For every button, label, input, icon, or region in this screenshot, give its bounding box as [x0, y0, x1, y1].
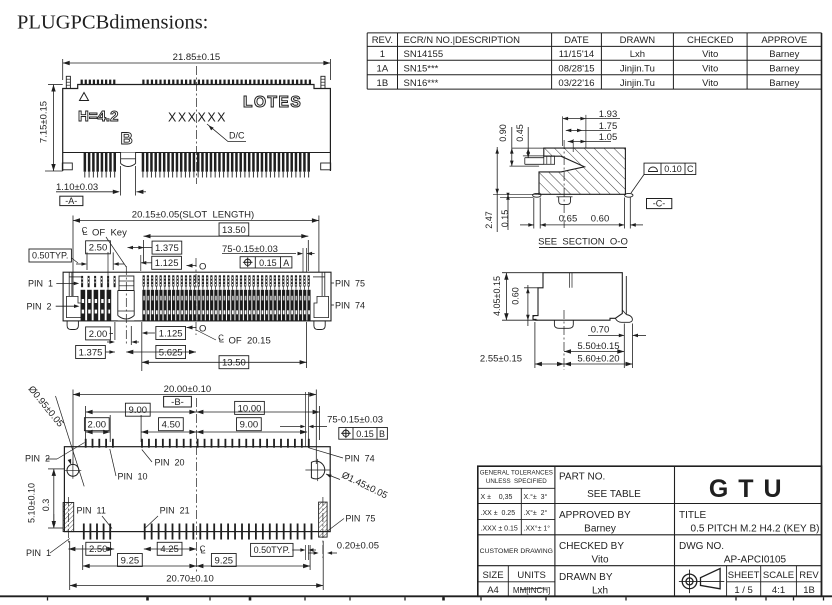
view1 body outline: [63, 85, 331, 172]
svg-text:20.00±0.10: 20.00±0.10: [164, 384, 211, 395]
view2 dim box 2.00 lower: [114, 322, 116, 340]
svg-text:O: O: [199, 262, 206, 273]
svg-text:LOTES: LOTES: [243, 94, 302, 111]
section dim 0.90: [511, 127, 513, 166]
svg-text:PIN 75: PIN 75: [335, 279, 365, 289]
svg-text:4.05±0.15: 4.05±0.15: [492, 276, 502, 316]
view1 bottom body edge: [63, 152, 331, 154]
bottom border line: [0, 595, 832, 597]
svg-text:MM[INCH]: MM[INCH]: [513, 586, 550, 595]
title block outer frame: [478, 466, 822, 596]
svg-text:0.45: 0.45: [515, 124, 525, 142]
svg-text:C: C: [82, 226, 88, 235]
view1 dim 7.15 extension lines: [48, 84, 63, 86]
view3 pin1 pad: [63, 503, 74, 532]
svg-text:PIN 74: PIN 74: [345, 454, 375, 464]
view1 left latch clip: [66, 76, 70, 88]
svg-text:1B: 1B: [377, 78, 389, 89]
svg-text:Barney: Barney: [769, 78, 799, 89]
svg-text:75-0.15±0.03: 75-0.15±0.03: [327, 415, 383, 426]
section right foot pad: [625, 193, 633, 197]
sideview dim 5.50±0.15: [564, 351, 624, 353]
section dim 1.05: [572, 139, 574, 152]
sheet scale rev cells: [726, 566, 728, 597]
svg-text:Jinjin.Tu: Jinjin.Tu: [620, 64, 655, 75]
svg-text:1B: 1B: [803, 585, 815, 596]
svg-text:0.15: 0.15: [500, 210, 510, 228]
svg-text:A: A: [283, 258, 289, 268]
section left foot pad: [533, 193, 541, 197]
sideview dim 4.05 extension lines: [502, 272, 543, 274]
svg-text:13.50: 13.50: [222, 358, 246, 369]
svg-text:UNLESS SPECIFIED: UNLESS SPECIFIED: [486, 478, 547, 485]
svg-text:0.90: 0.90: [498, 124, 508, 142]
title block main dividers: [554, 466, 556, 596]
svg-text:0.10: 0.10: [664, 164, 682, 174]
svg-text:1: 1: [380, 49, 385, 60]
svg-text:20.70±0.10: 20.70±0.10: [166, 574, 213, 585]
svg-text:O: O: [199, 324, 206, 335]
view2 left inner walls: [68, 272, 70, 296]
view3 dim 9.25 left: [82, 545, 84, 570]
svg-text:SIZE: SIZE: [482, 570, 503, 581]
sideview dim 5.60±0.20: [564, 363, 633, 365]
section pin centerline: [563, 140, 565, 228]
sideview dim 0.60: [524, 287, 538, 289]
sideview bottom pin bump: [554, 320, 573, 328]
svg-text:B: B: [121, 129, 133, 148]
svg-text:2.47: 2.47: [484, 211, 494, 229]
view1 index triangle mark: [80, 93, 89, 101]
svg-text:5.10±0.10: 5.10±0.10: [27, 483, 37, 523]
view3 dim 4.25 lower: [144, 548, 197, 550]
svg-text:9.25: 9.25: [121, 555, 140, 566]
view1 bottom pin strips right group: [142, 153, 145, 172]
view1 right mounting foot: [321, 163, 331, 170]
svg-text:Vito: Vito: [702, 78, 718, 89]
svg-text:Vito: Vito: [702, 64, 718, 75]
svg-text:PIN 21: PIN 21: [160, 506, 190, 516]
svg-text:11/15'14: 11/15'14: [559, 49, 594, 60]
view3 position tolerance frame B: [339, 428, 388, 440]
svg-text:DRAWN BY: DRAWN BY: [559, 572, 613, 583]
section dim 0.65 and 0.60: [520, 224, 534, 226]
view3 pin75 pad: [319, 502, 328, 537]
svg-text:G T U: G T U: [709, 475, 783, 503]
view2 contact tails group B: [143, 287, 145, 290]
view2 section marker O lower: [187, 327, 197, 329]
view2 top contact row group A: [81, 276, 83, 287]
svg-text:1.10±0.03: 1.10±0.03: [56, 182, 98, 193]
svg-text:OF Key: OF Key: [92, 228, 127, 239]
svg-text:PIN 2: PIN 2: [25, 454, 50, 464]
svg-text:0.15: 0.15: [259, 258, 277, 268]
svg-text:PIN 75: PIN 75: [345, 514, 375, 524]
view2 dim box 1.375 lower: [76, 346, 106, 359]
section datum C box: [647, 199, 672, 209]
svg-text:Vito: Vito: [702, 49, 718, 60]
svg-text:OF 20.15: OF 20.15: [229, 336, 271, 347]
svg-text:20.15±0.05(SLOT LENGTH): 20.15±0.05(SLOT LENGTH): [132, 210, 254, 221]
svg-text:X ± 0,35: X ± 0,35: [481, 494, 513, 501]
section left contact details: [525, 157, 544, 159]
svg-text:C: C: [687, 164, 694, 174]
svg-text:PIN 1: PIN 1: [26, 548, 51, 558]
view3 dim row 9.00 / 10.00: [85, 406, 87, 442]
view1 left mounting foot: [62, 163, 72, 170]
svg-text:DATE: DATE: [564, 35, 589, 46]
svg-text:1 / 5: 1 / 5: [734, 585, 753, 596]
svg-text:PART NO.: PART NO.: [559, 472, 605, 483]
svg-text:.XX°± 1°: .XX°± 1°: [524, 525, 551, 533]
svg-text:Lxh: Lxh: [592, 586, 608, 597]
svg-text:1.05: 1.05: [599, 132, 618, 143]
svg-text:9.25: 9.25: [215, 555, 234, 566]
view3 right hole 1.45: [311, 461, 324, 479]
svg-text:1.125: 1.125: [159, 328, 183, 339]
svg-text:0.60: 0.60: [511, 287, 521, 305]
svg-text:SEE TABLE: SEE TABLE: [587, 489, 641, 500]
svg-text:1.75: 1.75: [599, 121, 618, 132]
svg-text:4.25: 4.25: [160, 544, 179, 555]
svg-text:21.85±0.15: 21.85±0.15: [173, 52, 220, 63]
svg-text:08/28'15: 08/28'15: [558, 64, 594, 75]
view3 dim 9.25 right: [309, 545, 311, 570]
view2 left notch: [67, 296, 82, 317]
view2 body centerline: [195, 258, 197, 335]
bottom tick marks: [47, 597, 49, 600]
view1 top pin row group A: [81, 80, 83, 85]
view2 position tolerance frame: [240, 257, 292, 268]
svg-text:GENERAL TOLERANCES: GENERAL TOLERANCES: [480, 470, 553, 477]
sideview outer shell line: [625, 276, 627, 315]
svg-text:CHECKED: CHECKED: [687, 35, 734, 46]
view3 body centerline: [195, 398, 197, 572]
svg-text:2.00: 2.00: [88, 420, 107, 431]
view2 right inner walls: [321, 272, 323, 296]
view2 dim 20.15 line: [73, 220, 319, 222]
svg-text:9.00: 9.00: [129, 405, 148, 416]
view1 bottom pin strips left group: [84, 153, 87, 172]
svg-text:PIN 1: PIN 1: [28, 279, 53, 289]
section dim 1.93: [562, 116, 564, 146]
view3 dim 5.10±0.10: [53, 469, 55, 528]
svg-text:0.5 PITCH M.2 H4.2 (KEY B): 0.5 PITCH M.2 H4.2 (KEY B): [691, 524, 820, 535]
svg-text:10.00: 10.00: [238, 403, 262, 414]
view2 right foot: [314, 321, 325, 330]
view2 top contact row group B: [143, 275, 145, 286]
svg-text:Barney: Barney: [769, 64, 799, 75]
drawing frame right border: [821, 33, 823, 597]
view3 datum B box: [164, 396, 192, 407]
sideview dim 2.55±0.15: [534, 322, 536, 368]
svg-text:PIN 2: PIN 2: [27, 301, 52, 311]
svg-text:0.65: 0.65: [559, 214, 578, 225]
view3 bottom pad row group B: [144, 524, 146, 540]
svg-text:.XXX ± 0.15: .XXX ± 0.15: [481, 526, 518, 533]
svg-text:D/C: D/C: [229, 131, 245, 141]
svg-text:0.60: 0.60: [591, 214, 610, 225]
svg-text:C: C: [218, 334, 224, 343]
view3 bottom pad row group A: [83, 524, 85, 540]
svg-text:Lxh: Lxh: [630, 49, 645, 60]
section dim 2.47: [496, 147, 498, 232]
section profile tolerance frame: [644, 163, 696, 174]
view2 dim box 1.375 upper: [152, 241, 182, 254]
view3 left hole 0.95: [67, 464, 79, 476]
view3 dim 20.00±0.10: [73, 394, 316, 396]
view2 dim 20.15 extension lines: [72, 216, 74, 297]
svg-text:-B-: -B-: [171, 397, 184, 408]
svg-text:REV: REV: [799, 570, 819, 581]
svg-text:0.20±0.05: 0.20±0.05: [337, 541, 379, 552]
svg-text:SCALE: SCALE: [763, 570, 794, 581]
view2 aux vertical line: [107, 252, 109, 320]
view3 top pad row group B: [141, 439, 143, 448]
svg-text:5.50±0.15: 5.50±0.15: [577, 341, 619, 352]
view2 dim box 2.50: [86, 241, 111, 254]
view2 lower contact strips group A: [81, 290, 86, 321]
svg-text:2.50: 2.50: [89, 544, 108, 555]
view2 dim box 1.125 upper: [152, 256, 182, 269]
view1 dim 1.10 extension lines: [120, 166, 122, 196]
svg-text:REV.: REV.: [372, 35, 393, 46]
section dim 1.75: [566, 129, 611, 131]
svg-text:DRAWN: DRAWN: [620, 35, 656, 46]
section bottom extension lines: [533, 198, 535, 229]
view3 dim 2.50 lower: [68, 548, 114, 550]
svg-text:03/22'16: 03/22'16: [558, 78, 594, 89]
view3 dim 20.70±0.10: [70, 585, 324, 587]
sideview left solder foot: [533, 316, 538, 321]
svg-text:B: B: [379, 429, 385, 439]
svg-text:APPROVE: APPROVE: [761, 35, 807, 46]
view3 dim 20.00 extension lines: [72, 390, 74, 465]
view3 dim 20.70 extension lines: [69, 541, 71, 590]
svg-text:PLUGPCBdimensions:: PLUGPCBdimensions:: [17, 12, 208, 34]
svg-text:4:1: 4:1: [772, 585, 785, 596]
svg-text:0.50TYP.: 0.50TYP.: [254, 545, 290, 555]
view2 key tower: [119, 276, 134, 291]
svg-text:A4: A4: [487, 585, 499, 596]
view3 body outline: [64, 447, 330, 532]
size units cells: [507, 566, 509, 597]
view2 lower contact strips group B: [142, 290, 145, 321]
third angle projection symbol: [682, 574, 697, 589]
section frame leader: [631, 175, 644, 194]
view1 dim 7.15±0.15: [53, 85, 55, 172]
svg-text:.X°± 2°: .X°± 2°: [524, 509, 548, 517]
svg-text:13.50: 13.50: [222, 225, 246, 236]
svg-text:5.60±0.20: 5.60±0.20: [577, 353, 619, 364]
section dim 0.15: [507, 194, 509, 230]
sideview dim 4.05±0.15: [505, 273, 507, 321]
svg-text:0.70: 0.70: [591, 324, 610, 335]
svg-text:0.3: 0.3: [41, 499, 51, 512]
svg-text:PIN 74: PIN 74: [335, 301, 365, 311]
svg-text:Barney: Barney: [584, 524, 616, 535]
svg-text:-A-: -A-: [65, 196, 77, 206]
svg-text:-C-: -C-: [653, 199, 666, 209]
view1 vertical centerline: [195, 66, 197, 184]
view1 key slot: [121, 153, 136, 164]
svg-text:SN14155: SN14155: [404, 49, 444, 60]
svg-text:PIN 10: PIN 10: [118, 472, 148, 482]
svg-text:9.00: 9.00: [240, 420, 259, 431]
svg-text:SHEET: SHEET: [728, 570, 760, 581]
view2 dim 13.50 lower: [306, 322, 308, 368]
view1 dim 21.85 extension lines: [62, 59, 64, 80]
view1 dim 21.85±0.15: [63, 62, 331, 64]
svg-text:DWG NO.: DWG NO.: [679, 541, 724, 552]
svg-text:0.15: 0.15: [356, 429, 374, 439]
sideview right solder foot: [615, 315, 632, 323]
view3 dim row 2.00 / 4.50 / 9.00: [109, 415, 111, 442]
svg-text:APPROVED BY: APPROVED BY: [559, 510, 631, 521]
sideview dim 0.70: [623, 324, 625, 369]
svg-text:Barney: Barney: [769, 49, 799, 60]
section dim 0.45: [527, 127, 529, 158]
svg-text:TITLE: TITLE: [679, 510, 707, 521]
view2 right notch: [314, 296, 329, 317]
view2 key slot white area: [118, 291, 134, 321]
svg-text:2.55±0.15: 2.55±0.15: [480, 353, 522, 364]
svg-text:PIN 11: PIN 11: [77, 506, 106, 516]
svg-text:SN16***: SN16***: [404, 78, 439, 89]
view3 top pad row group A: [85, 439, 87, 448]
view3 dim 5.10 extension lines: [48, 468, 64, 470]
view3 dim 0.50TYP lower: [251, 543, 293, 556]
svg-text:C: C: [200, 545, 206, 554]
section body hatched: [539, 148, 625, 194]
svg-text:2.50: 2.50: [89, 243, 108, 254]
svg-text:UNITS: UNITS: [517, 570, 546, 581]
svg-text:ECR/N NO.|DESCRIPTION: ECR/N NO.|DESCRIPTION: [404, 35, 521, 46]
section dim extension lines left: [512, 147, 544, 149]
svg-text:1.375: 1.375: [79, 347, 103, 358]
svg-text:PIN 20: PIN 20: [155, 458, 185, 468]
svg-text:.XX ± 0.25: .XX ± 0.25: [481, 510, 516, 517]
svg-text:1.125: 1.125: [155, 258, 179, 269]
view1 right latch clip: [321, 76, 325, 88]
svg-text:CHECKED BY: CHECKED BY: [559, 541, 624, 552]
svg-text:5.625: 5.625: [159, 347, 183, 358]
sideview centerline: [563, 310, 565, 370]
svg-text:SN15***: SN15***: [404, 64, 439, 75]
view2 body outline: [63, 272, 331, 321]
view2 section marker O upper: [187, 265, 197, 267]
view2 dim 2.50 arrows: [76, 263, 85, 265]
svg-text:1.93: 1.93: [599, 109, 618, 120]
svg-text:AP-APCI0105: AP-APCI0105: [724, 555, 787, 566]
svg-text:Vito: Vito: [591, 555, 608, 566]
svg-text:Jinjin.Tu: Jinjin.Tu: [620, 78, 655, 89]
revision table grid: [367, 32, 821, 34]
svg-text:SEE SECTION O-O: SEE SECTION O-O: [538, 237, 628, 248]
svg-text:4.50: 4.50: [162, 420, 181, 431]
svg-text:7.15±0.15: 7.15±0.15: [39, 101, 50, 143]
view1 datum A box: [60, 196, 83, 205]
view2 dim box 5.625: [126, 351, 196, 353]
view2 dim box 1.125 lower: [156, 327, 186, 340]
svg-text:1A: 1A: [377, 64, 389, 75]
svg-text:0.50TYP.: 0.50TYP.: [32, 251, 68, 261]
view2 left foot: [67, 321, 78, 330]
svg-text:XXXXXX: XXXXXX: [168, 111, 227, 125]
sideview body outline: [533, 273, 622, 321]
view1 top pin row group B: [142, 80, 144, 85]
view2 dim 13.50 upper: [143, 240, 145, 262]
sideview top latch lines: [569, 273, 571, 288]
svg-text:1.375: 1.375: [155, 243, 179, 254]
svg-text:2.00: 2.00: [89, 329, 108, 340]
tolerance table grid: [478, 487, 555, 489]
section center pin tail: [559, 197, 571, 205]
svg-text:X.°± 3°: X.°± 3°: [524, 493, 548, 501]
svg-text:H=4.2: H=4.2: [78, 108, 118, 125]
view2 key centerline: [125, 266, 127, 345]
svg-text:CUSTOMER DRAWING: CUSTOMER DRAWING: [480, 548, 553, 555]
view2 dim box 0.50TYP: [29, 249, 71, 262]
